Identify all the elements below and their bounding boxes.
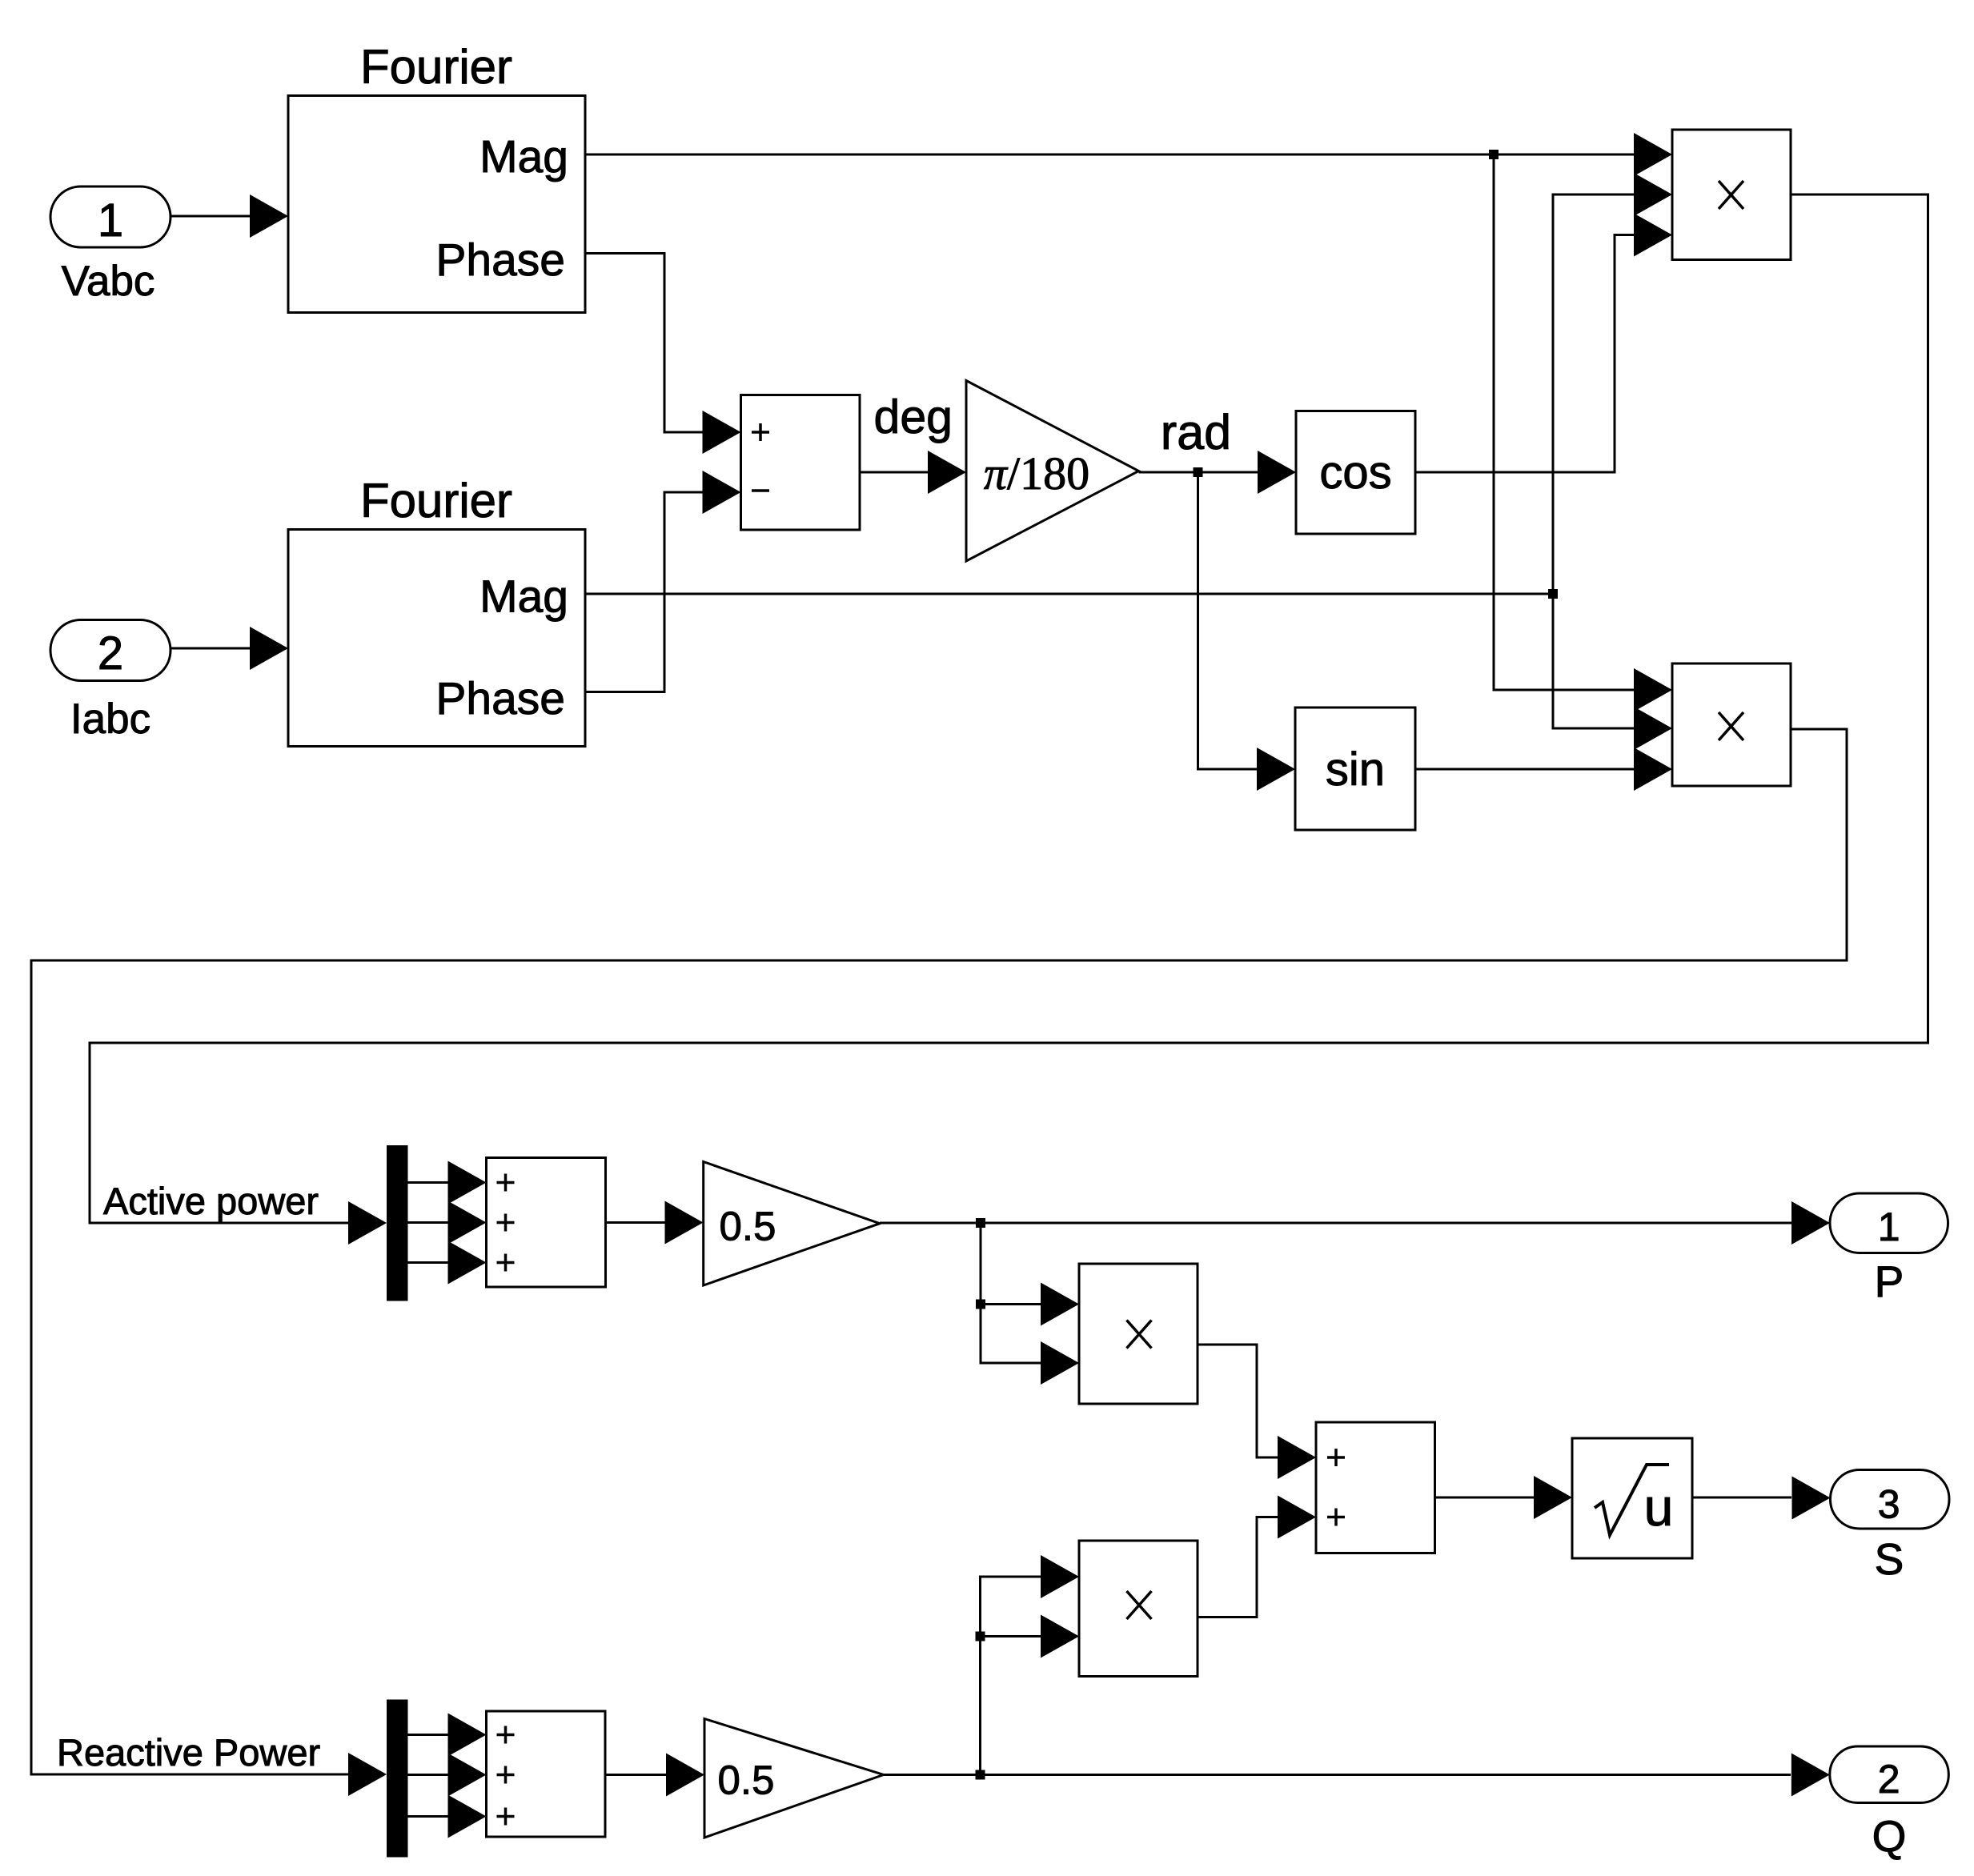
wire Q line junction up to product4 inputs — [981, 1577, 1042, 1775]
gain block pi/180 — [966, 381, 1139, 562]
arrowhead into sin — [1257, 748, 1295, 791]
arrowhead product1 in2 — [1634, 173, 1672, 216]
wire junction to product4 input2 — [981, 1635, 1042, 1637]
arrowhead product4 in2 — [1041, 1615, 1079, 1658]
arrowhead sum4 in2 — [448, 1754, 487, 1797]
arrowhead into mux1 — [348, 1201, 387, 1245]
arrowhead sum2 in3 — [448, 1241, 487, 1285]
svg-text:π/180: π/180 — [984, 447, 1089, 499]
arrowhead product3 in2 — [1041, 1341, 1079, 1385]
wire Q line from gain3 to outport Q — [884, 1774, 1791, 1776]
outport oval S — [1831, 1470, 1950, 1529]
wire product4 out to sum3 input2 — [1198, 1517, 1279, 1617]
wire junction down to sin — [1198, 472, 1259, 769]
inport oval 1 — [50, 186, 171, 247]
svg-text:rad: rad — [1161, 405, 1231, 459]
wire inport1 to Fourier1 — [171, 215, 251, 218]
wire gain1 out to cos — [1139, 471, 1259, 474]
arrowhead product2 in2 — [1634, 707, 1672, 750]
wire sum2 out to gain2 — [606, 1221, 667, 1224]
arrowhead sum2 in2 — [448, 1201, 487, 1245]
sum block sum4 — [487, 1711, 606, 1837]
arrowhead sum3 in2 — [1278, 1496, 1316, 1539]
inport oval 2 — [50, 620, 171, 681]
mux2 stub 2 — [408, 1774, 450, 1776]
wire product1 out feedback to Active power line — [90, 194, 1928, 1223]
junction after gain1 — [1194, 467, 1203, 477]
arrowhead into mux2 — [348, 1753, 387, 1796]
junction on Q line — [976, 1770, 985, 1780]
wire junction Mag2 down to product2 input2 — [1553, 594, 1635, 728]
arrowhead sum1 minus — [703, 471, 741, 514]
outport oval P — [1830, 1193, 1948, 1253]
arrowhead into Fourier1 — [250, 194, 288, 238]
arrowhead into sqrt — [1534, 1476, 1572, 1519]
arrowhead into gain3 — [666, 1754, 704, 1797]
sqrt block — [1572, 1438, 1692, 1558]
svg-text:Vabc: Vabc — [62, 258, 155, 305]
mux1 stub 3 — [408, 1261, 450, 1264]
wire cos out to product1 input3 — [1415, 235, 1635, 473]
sum1 minus sign — [752, 489, 769, 492]
wire sqrt out to outport S — [1692, 1497, 1791, 1499]
wire product3 out to sum3 input1 — [1198, 1345, 1279, 1457]
wire junction Mag1 down to product2 input1 — [1494, 154, 1635, 690]
svg-text:cos: cos — [1319, 447, 1391, 499]
svg-text:u: u — [1644, 1477, 1674, 1537]
mux2 stub 3 — [408, 1815, 450, 1818]
sum block sum3 — [1316, 1422, 1435, 1553]
arrowhead product3 in1 — [1041, 1283, 1079, 1326]
svg-text:Q: Q — [1872, 1811, 1907, 1861]
sum block sum1 — [741, 395, 861, 531]
arrowhead product4 in1 — [1041, 1555, 1079, 1598]
arrowhead into outport S — [1792, 1477, 1831, 1520]
arrowhead into gain1 — [928, 451, 966, 494]
svg-text:1: 1 — [98, 194, 123, 247]
wire inport2 to Fourier2 — [171, 647, 251, 650]
arrowhead product2 in1 — [1634, 668, 1672, 712]
arrowhead into cos — [1258, 451, 1296, 494]
arrowhead sum4 in3 — [448, 1795, 487, 1838]
wire Phase2 to sum1 minus input — [585, 492, 704, 692]
svg-text:2: 2 — [1878, 1757, 1900, 1802]
sum3 plus signs — [1327, 1449, 1345, 1526]
svg-text:Mag: Mag — [479, 571, 568, 623]
product3 times symbol — [1127, 1321, 1152, 1349]
arrowhead product1 in3 — [1634, 214, 1672, 257]
wire sin out to product2 input3 — [1415, 768, 1635, 771]
arrowhead product2 in3 — [1634, 748, 1672, 791]
svg-text:Active power: Active power — [103, 1180, 319, 1222]
wire P junction down to product3 inputs — [981, 1223, 1041, 1363]
product2 times symbol — [1719, 712, 1743, 740]
wire sum1 out to gain1 — [860, 471, 929, 474]
arrowhead sum2 in1 — [448, 1161, 487, 1205]
outport oval Q — [1830, 1746, 1949, 1803]
Fourier block 1 — [288, 96, 585, 313]
wire junction Mag2 up to product1 input2 — [1553, 194, 1635, 594]
gain block 0.5 lower — [704, 1719, 884, 1838]
product1 times symbol — [1719, 181, 1743, 209]
wire sum3 out to sqrt — [1435, 1497, 1536, 1499]
mux1 stub 1 — [408, 1181, 450, 1184]
svg-text:sin: sin — [1326, 744, 1385, 796]
svg-text:Mag: Mag — [479, 131, 568, 182]
product block 1 — [1672, 130, 1791, 260]
arrowhead into outport Q — [1791, 1754, 1830, 1797]
svg-text:Fourier: Fourier — [360, 474, 512, 527]
arrowhead sum3 in1 — [1278, 1436, 1316, 1479]
svg-text:0.5: 0.5 — [720, 1204, 776, 1249]
sum1 plus sign — [752, 423, 769, 441]
wire junction to product3 input1 — [981, 1303, 1041, 1305]
svg-text:Iabc: Iabc — [70, 695, 150, 743]
svg-text:deg: deg — [874, 391, 953, 443]
svg-text:3: 3 — [1878, 1482, 1900, 1527]
mux1 stub 2 — [408, 1221, 450, 1224]
svg-text:0.5: 0.5 — [718, 1758, 775, 1803]
svg-text:S: S — [1875, 1534, 1904, 1584]
wire Phase1 to sum1 plus input — [585, 254, 704, 433]
svg-text:Phase: Phase — [435, 673, 565, 724]
svg-text:Phase: Phase — [435, 234, 565, 286]
product block 3 — [1079, 1264, 1198, 1404]
product block 4 — [1079, 1541, 1198, 1677]
wire Mag1 to product1 input1 — [585, 154, 1635, 156]
sum4 plus signs — [497, 1726, 515, 1826]
sum2 plus signs — [497, 1174, 515, 1272]
svg-text:Fourier: Fourier — [360, 40, 512, 94]
wire Mag2 to junction — [585, 593, 1553, 595]
gain block 0.5 upper — [704, 1162, 880, 1286]
sum block sum2 — [487, 1158, 606, 1288]
junction on P line — [976, 1218, 985, 1228]
arrowhead sum4 in1 — [448, 1714, 487, 1757]
arrowhead product1 in1 — [1634, 133, 1672, 176]
cos block — [1296, 411, 1415, 535]
wire product2 out feedback to Reactive power line — [31, 729, 1847, 1774]
mux2 stub 1 — [408, 1734, 450, 1736]
mux2 bar — [387, 1700, 408, 1858]
arrowhead sum1 plus — [703, 411, 741, 454]
arrowhead into outport P — [1791, 1201, 1830, 1245]
sqrt radical symbol — [1595, 1465, 1669, 1535]
junction on Q branch — [976, 1632, 985, 1641]
Fourier block 2 — [288, 530, 585, 747]
junction on P branch — [976, 1300, 985, 1309]
sin block — [1295, 708, 1415, 830]
product block 2 — [1672, 663, 1791, 786]
wire P line from gain2 to outport P — [880, 1222, 1791, 1225]
arrowhead into Fourier2 — [250, 627, 288, 670]
arrowhead into gain2 — [665, 1201, 704, 1245]
mux1 bar — [387, 1145, 408, 1301]
svg-text:1: 1 — [1878, 1205, 1900, 1249]
svg-text:P: P — [1875, 1257, 1904, 1306]
junction on Mag2 line — [1548, 589, 1558, 599]
wire sum4 out to gain3 — [605, 1774, 667, 1776]
svg-text:2: 2 — [98, 627, 123, 679]
junction on Mag1 line — [1489, 150, 1499, 159]
svg-text:Reactive Power: Reactive Power — [57, 1731, 320, 1774]
product4 times symbol — [1127, 1591, 1152, 1619]
